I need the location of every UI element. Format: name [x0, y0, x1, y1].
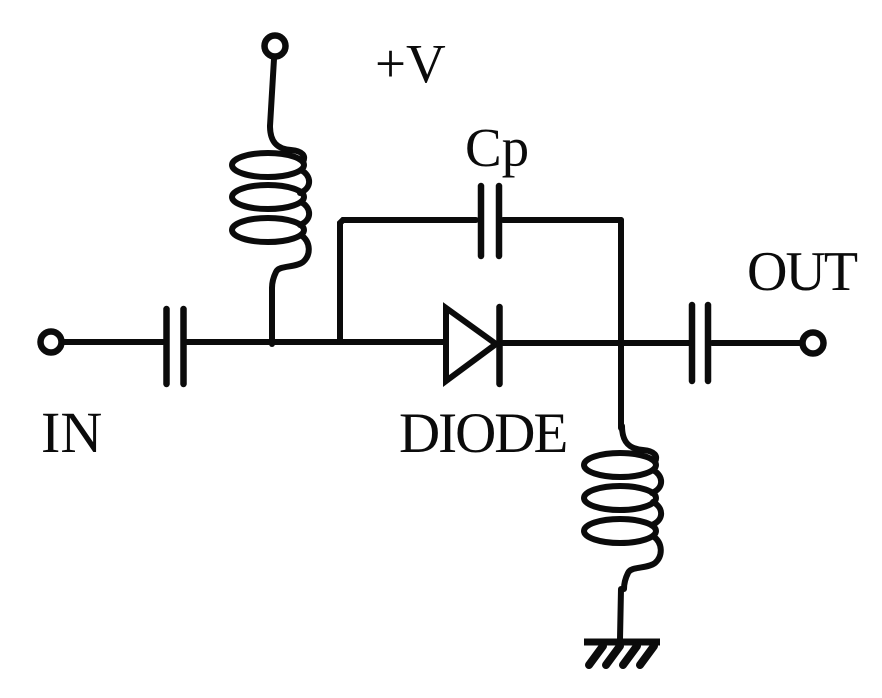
wire: feedback branch left vertical	[340, 220, 476, 342]
label DIODE	[399, 402, 566, 465]
capacitor (input coupling)	[167, 309, 184, 384]
label OUT	[747, 241, 858, 303]
svg-text:IN: IN	[41, 400, 102, 465]
terminal +V	[265, 36, 286, 57]
label Cp	[465, 117, 529, 178]
label IN	[41, 400, 102, 465]
wire: Cp to feedback right vertical	[503, 217, 621, 223]
node: output junction	[618, 341, 624, 345]
terminal IN	[41, 332, 62, 353]
diode DIODE	[446, 307, 500, 384]
wire: diode cathode to output junction	[503, 340, 689, 346]
ground	[584, 642, 660, 665]
node: L1 / RF input junction	[269, 340, 275, 344]
inductor L1 (RF choke to +V)	[232, 126, 309, 342]
terminal OUT	[803, 333, 824, 354]
wire: +V terminal to inductor L1	[270, 59, 274, 126]
capacitor (output coupling)	[692, 305, 708, 381]
wire: output capacitor to OUT terminal	[712, 340, 800, 346]
wire: input capacitor to diode anode (through junctions)	[187, 339, 446, 345]
label +V	[375, 33, 446, 94]
svg-text:DIODE: DIODE	[399, 402, 566, 465]
wire: IN terminal to input capacitor	[64, 339, 163, 345]
capacitor Cp	[481, 186, 499, 256]
wire: output junction down to inductor L2	[618, 345, 624, 428]
svg-text:OUT: OUT	[747, 241, 858, 303]
inductor L2 (shunt choke to ground)	[584, 426, 661, 639]
svg-text:+V: +V	[375, 33, 446, 94]
svg-text:Cp: Cp	[465, 117, 529, 178]
wire: feedback right vertical down to node	[618, 220, 624, 342]
